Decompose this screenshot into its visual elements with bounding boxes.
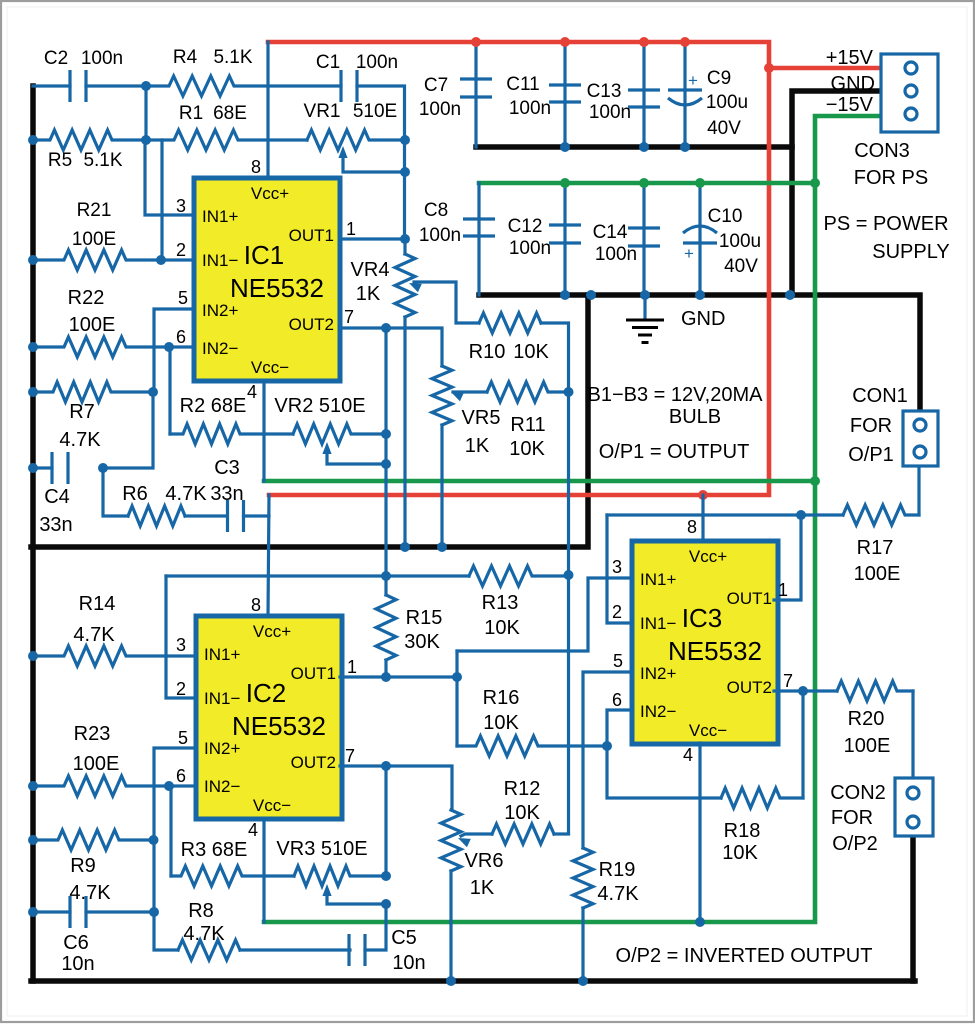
- pin 4 IC1: [247, 382, 257, 402]
- node R9 left: [28, 835, 38, 845]
- label R5: [48, 150, 72, 171]
- junction ground bus A x=644: [639, 142, 649, 152]
- wire -15V top rail: [479, 181, 815, 186]
- svg-text:R4: R4: [173, 47, 198, 68]
- svg-text:R22: R22: [68, 287, 105, 309]
- svg-text:NE5532: NE5532: [230, 273, 324, 303]
- node R14 left: [28, 651, 38, 661]
- junction -15V rail x=644: [639, 178, 649, 188]
- note B1-B3: [588, 384, 764, 406]
- wire IC3 out2: [774, 689, 837, 692]
- label C12 value: [509, 238, 551, 259]
- resistor R10: [479, 313, 541, 333]
- svg-text:100n: 100n: [509, 238, 551, 259]
- svg-text:100u: 100u: [706, 92, 748, 113]
- svg-text:O/P1 = OUTPUT: O/P1 = OUTPUT: [599, 441, 750, 463]
- label C14: [593, 222, 628, 243]
- label C3: [214, 457, 240, 479]
- note O/P2: [616, 945, 873, 967]
- label C13 value: [589, 102, 631, 123]
- wire IC1 out1: [341, 237, 405, 240]
- node R9 right: [149, 835, 159, 845]
- svg-text:R20: R20: [848, 708, 885, 730]
- label CON2 O/P2: [832, 833, 878, 855]
- wire CON2 to ground bus: [910, 836, 916, 981]
- wire R7 node to C4: [103, 392, 153, 468]
- label R17 value: [854, 563, 901, 585]
- svg-text:Vcc+: Vcc+: [251, 184, 289, 203]
- svg-text:8: 8: [251, 595, 261, 615]
- wire R10 to R13 column: [541, 323, 569, 833]
- resistor R6: [128, 506, 185, 526]
- label R19 value: [597, 883, 639, 905]
- svg-text:O/P2: O/P2: [832, 833, 878, 855]
- node OUT1 IC1: [400, 234, 410, 244]
- svg-text:10K: 10K: [504, 802, 540, 824]
- svg-text:C3: C3: [214, 457, 240, 479]
- label CON2 FOR: [831, 807, 873, 829]
- svg-text:OUT1: OUT1: [727, 589, 772, 608]
- svg-text:OUT2: OUT2: [291, 753, 336, 772]
- svg-text:IN1+: IN1+: [204, 645, 240, 664]
- node pin2: [156, 255, 166, 265]
- svg-text:CON2: CON2: [830, 782, 886, 804]
- label R20: [848, 708, 885, 730]
- svg-text:Vcc+: Vcc+: [253, 622, 291, 641]
- label +15V: [826, 47, 874, 69]
- svg-text:3: 3: [176, 635, 186, 655]
- label VR3 510E: [276, 838, 367, 860]
- wire IC1 out2: [341, 328, 442, 366]
- svg-text:VR1: VR1: [304, 101, 341, 122]
- node R5/R1: [141, 135, 151, 145]
- label R1 value: [213, 103, 247, 124]
- pin 6 IC2: [176, 766, 186, 786]
- label R23 value: [73, 753, 120, 775]
- label VR4: [351, 259, 390, 281]
- svg-text:5: 5: [178, 728, 188, 748]
- wire IC2 out2: [340, 766, 452, 810]
- wire IC2 out1: [340, 675, 457, 678]
- note BULB: [669, 406, 721, 428]
- svg-text:33n: 33n: [39, 514, 72, 536]
- resistor R19: [573, 848, 593, 908]
- potentiometer VR2 track: [293, 424, 386, 444]
- svg-text:NE5532: NE5532: [232, 711, 326, 741]
- svg-text:O/P2 = INVERTED OUTPUT: O/P2 = INVERTED OUTPUT: [616, 945, 873, 967]
- svg-text:−15V: −15V: [826, 94, 874, 116]
- svg-text:R16: R16: [483, 687, 520, 709]
- svg-text:BULB: BULB: [669, 406, 721, 428]
- junction ground bus B x=790: [785, 290, 795, 300]
- svg-text:C6: C6: [63, 932, 89, 954]
- svg-text:1: 1: [778, 580, 788, 600]
- label C13: [587, 81, 622, 102]
- potentiometer VR2 wiper: [322, 442, 386, 464]
- label R2 68E: [180, 395, 247, 417]
- svg-text:R14: R14: [79, 593, 116, 615]
- label R21 value: [72, 229, 116, 250]
- wire C2 to R4 node: [86, 84, 146, 87]
- label C11 value: [509, 98, 551, 119]
- capacitor C11: [549, 85, 581, 102]
- svg-text:C14: C14: [593, 222, 628, 243]
- label R8: [188, 900, 214, 922]
- wire IC3 pin4 to -15V: [698, 743, 701, 922]
- svg-text:R11: R11: [510, 414, 545, 436]
- pin 7 IC1: [344, 307, 354, 327]
- wire R17 to CON1: [917, 466, 920, 515]
- capacitor C9: [668, 71, 702, 105]
- pin 3 IC1: [176, 196, 186, 216]
- label R21: [77, 200, 112, 221]
- capacitor C4: [52, 452, 68, 484]
- resistor R14: [33, 646, 196, 666]
- capacitor C7: [460, 79, 492, 97]
- label R3 68E: [181, 839, 248, 861]
- connector CON2: [895, 778, 933, 836]
- pin 8 IC1: [251, 157, 261, 177]
- label R9 value: [69, 882, 111, 904]
- label R4 value: [213, 47, 252, 68]
- pin 2 IC2: [176, 679, 186, 699]
- svg-text:8: 8: [687, 517, 697, 537]
- svg-text:1: 1: [346, 219, 356, 239]
- label C14 value: [595, 244, 637, 265]
- capacitor C13: [628, 90, 660, 107]
- label CON1 FOR: [850, 415, 892, 437]
- svg-text:2: 2: [612, 602, 622, 622]
- junction ground bus B x=591: [586, 290, 596, 300]
- wire C4 to R6: [103, 468, 128, 516]
- junction -15V mid rail: [810, 476, 820, 486]
- junction -15V rail x=565: [560, 178, 570, 188]
- svg-text:+15V: +15V: [826, 47, 874, 69]
- svg-text:VR3 510E: VR3 510E: [276, 838, 367, 860]
- junction +15V IC3 pin8: [698, 490, 708, 500]
- svg-text:GND: GND: [681, 308, 725, 330]
- svg-text:IN2−: IN2−: [204, 777, 240, 796]
- node IN1- IC3: [602, 741, 612, 751]
- node OUT2 IC1: [381, 323, 391, 333]
- svg-text:5: 5: [613, 651, 623, 671]
- svg-text:GND: GND: [831, 73, 875, 95]
- svg-text:40V: 40V: [707, 118, 741, 139]
- wire CON3 GND branch: [792, 91, 881, 295]
- svg-text:B1−B3 = 12V,20MA: B1−B3 = 12V,20MA: [588, 384, 764, 406]
- label C2 value: [81, 48, 123, 69]
- pin 2 IC3: [612, 602, 622, 622]
- node C6 left: [28, 907, 38, 917]
- svg-text:5.1K: 5.1K: [213, 47, 252, 68]
- pin 7 IC2: [345, 746, 355, 766]
- svg-text:4.7K: 4.7K: [183, 923, 225, 945]
- resistor R16: [457, 736, 607, 756]
- wire C6 to R8 corner: [86, 910, 154, 913]
- capacitor C10: [683, 226, 717, 263]
- wire +15V to CON3: [769, 66, 881, 71]
- svg-text:C2: C2: [44, 48, 68, 69]
- pin 4 IC2: [248, 820, 258, 840]
- svg-text:100n: 100n: [419, 99, 461, 120]
- junction ground bus A x=565: [560, 142, 570, 152]
- resistor R15: [376, 595, 396, 660]
- node OUT2 IC2: [381, 761, 391, 771]
- svg-text:IN1−: IN1−: [202, 251, 238, 270]
- svg-text:R2 68E: R2 68E: [180, 395, 247, 417]
- junction +15V rail x=565: [560, 37, 570, 47]
- wire IC3 pin8 to +15V: [701, 495, 704, 541]
- wire R8 to C5: [240, 948, 350, 951]
- junction ground bus B x=700: [695, 290, 705, 300]
- svg-text:7: 7: [344, 307, 354, 327]
- svg-text:C7: C7: [424, 75, 448, 96]
- svg-text:C4: C4: [44, 486, 70, 508]
- svg-text:4: 4: [247, 382, 257, 402]
- svg-text:FOR PS: FOR PS: [854, 167, 928, 189]
- wire R4 to C1: [268, 84, 341, 87]
- svg-text:7: 7: [345, 746, 355, 766]
- wire R13 line: [166, 574, 469, 577]
- svg-text:C10: C10: [708, 206, 743, 227]
- svg-text:Vcc−: Vcc−: [689, 721, 727, 740]
- potentiometer VR3 track: [294, 866, 386, 886]
- svg-text:CON3: CON3: [854, 140, 910, 162]
- wire pin5 to R7: [154, 309, 194, 392]
- wire C3 to +15V column: [244, 514, 270, 517]
- wire IC3 pin6: [607, 710, 632, 746]
- label R16 value: [483, 712, 519, 734]
- label R23: [74, 723, 111, 745]
- node VR3 right: [381, 871, 391, 881]
- wire -15V mid rail: [264, 479, 815, 484]
- svg-text:C13: C13: [587, 81, 622, 102]
- svg-text:1K: 1K: [470, 877, 495, 899]
- label R5 value: [83, 150, 122, 171]
- node R15 top: [381, 571, 391, 581]
- capacitor C1: [341, 70, 357, 102]
- wire R20 to CON2: [911, 691, 914, 778]
- wire pin5 IC2 to R9: [154, 748, 196, 840]
- label R14: [79, 593, 116, 615]
- wire VR4 column bottom: [403, 317, 406, 547]
- svg-text:R1: R1: [179, 103, 203, 124]
- junction -15V rail x=815: [810, 178, 820, 188]
- pin 1 IC2: [347, 657, 357, 677]
- label R16: [483, 687, 520, 709]
- svg-text:2: 2: [176, 679, 186, 699]
- label R9: [70, 855, 96, 877]
- wire R17 line: [607, 513, 843, 516]
- potentiometer VR5 track: [432, 366, 452, 425]
- svg-text:1: 1: [347, 657, 357, 677]
- label FOR PS: [854, 167, 928, 189]
- svg-text:VR6: VR6: [465, 850, 504, 872]
- label C4: [44, 486, 70, 508]
- node R16 top: [452, 672, 462, 682]
- wire ground bus B: [479, 295, 920, 411]
- wire IC3 pin1: [774, 515, 801, 600]
- pin 2 IC1: [176, 240, 186, 260]
- capacitor C3: [228, 500, 244, 532]
- wire IC2 pin8 to +15V: [268, 495, 269, 616]
- label C1 value: [356, 52, 398, 73]
- wire R19 to ground: [581, 908, 584, 981]
- node R22 left: [28, 342, 38, 352]
- wire left ground bus vertical: [30, 86, 36, 981]
- svg-text:100n: 100n: [595, 244, 637, 265]
- wire pin6 IC2 to R3: [169, 786, 171, 876]
- label VR1: [304, 101, 341, 122]
- label R22: [68, 287, 105, 309]
- potentiometer VR1 wiper: [338, 146, 405, 172]
- label C7 value: [419, 99, 461, 120]
- label R18 value: [722, 842, 758, 864]
- label -15V: [826, 94, 874, 116]
- label R13: [482, 592, 519, 614]
- wire mid ground bus: [31, 295, 588, 547]
- svg-text:40V: 40V: [724, 256, 758, 277]
- node R5 left: [28, 135, 38, 145]
- svg-text:1K: 1K: [465, 435, 490, 457]
- resistor R4: [146, 76, 268, 96]
- svg-text:3: 3: [176, 196, 186, 216]
- wire IC1 pin4 to -15V: [262, 381, 265, 481]
- svg-text:4.7K: 4.7K: [165, 483, 207, 505]
- svg-text:6: 6: [176, 327, 186, 347]
- label C3 value: [210, 483, 243, 505]
- node C6 right: [149, 907, 159, 917]
- pin 5 IC3: [613, 651, 623, 671]
- wire R18 to OUT2: [801, 691, 804, 798]
- label R1: [179, 103, 203, 124]
- label R7: [69, 401, 95, 423]
- svg-text:FOR: FOR: [850, 415, 892, 437]
- label C11: [506, 74, 539, 95]
- label GND node: [681, 308, 725, 330]
- svg-text:C12: C12: [508, 216, 543, 237]
- pin 1 IC1: [346, 219, 356, 239]
- svg-text:IN2+: IN2+: [202, 301, 238, 320]
- svg-text:R23: R23: [74, 723, 111, 745]
- label C2: [44, 48, 68, 69]
- label R22 value: [69, 314, 116, 336]
- potentiometer VR5 wiper: [451, 392, 487, 401]
- svg-text:10K: 10K: [484, 617, 520, 639]
- label R6: [122, 483, 148, 505]
- wire IC3 pin5 to R19: [583, 672, 632, 848]
- wire R9 node to C6: [152, 840, 155, 912]
- resistor R5: [33, 130, 146, 150]
- wire C5 to OUT2 column: [365, 904, 386, 950]
- potentiometer VR6 wiper: [458, 834, 492, 847]
- resistor R2: [170, 424, 293, 444]
- label R19: [599, 859, 636, 881]
- svg-text:FOR: FOR: [831, 807, 873, 829]
- wire IC2 pin4 to -15V: [262, 819, 265, 922]
- resistor R13: [469, 566, 569, 586]
- node OUT1 IC2: [381, 672, 391, 682]
- wire R18 line: [607, 746, 721, 798]
- wire C1 to VR1 node: [357, 86, 405, 239]
- pin 3 IC2: [176, 635, 186, 655]
- label C6 value: [61, 953, 94, 975]
- wire R16 left column: [455, 651, 458, 746]
- label C10 value: [719, 231, 761, 252]
- svg-text:C5: C5: [391, 927, 417, 949]
- wire R13 col to pin2 IC2: [166, 576, 196, 698]
- svg-text:R18: R18: [724, 820, 761, 842]
- junction -15V rail x=700: [695, 178, 705, 188]
- svg-text:100n: 100n: [419, 225, 461, 246]
- svg-text:3: 3: [612, 557, 622, 577]
- pin 3 IC3: [612, 557, 622, 577]
- svg-text:10K: 10K: [509, 438, 545, 460]
- label C10: [708, 206, 743, 227]
- svg-text:+: +: [684, 244, 694, 263]
- pin 4 IC3: [683, 745, 693, 765]
- svg-text:5: 5: [178, 288, 188, 308]
- wire bottom ground bus: [31, 978, 915, 984]
- svg-text:Vcc−: Vcc−: [253, 796, 291, 815]
- junction ground bus B x=565: [560, 290, 570, 300]
- potentiometer VR6 track: [441, 810, 461, 871]
- wire -15V from CON3: [264, 116, 881, 922]
- node VR6 ground: [446, 976, 456, 986]
- wire IC3 pin2 to R17 line: [607, 515, 632, 623]
- label C8 value: [419, 225, 461, 246]
- svg-text:C8: C8: [424, 200, 448, 221]
- wire C9 column: [683, 42, 686, 147]
- svg-text:R6: R6: [122, 483, 148, 505]
- label C1: [316, 52, 340, 73]
- label VR2 510E: [274, 395, 365, 417]
- capacitor C8: [463, 219, 495, 236]
- svg-text:1K: 1K: [356, 283, 381, 305]
- pin 6 IC1: [176, 327, 186, 347]
- wire IC1 pin8 to +15V: [266, 42, 269, 178]
- label C12: [508, 216, 543, 237]
- node pin6 IC2: [164, 781, 174, 791]
- label VR6 value: [470, 877, 495, 899]
- svg-text:4.7K: 4.7K: [73, 624, 115, 646]
- label R15 value: [404, 631, 440, 653]
- wire C11 column: [563, 42, 566, 147]
- node C4 left: [28, 463, 38, 473]
- pin 1 IC3: [778, 580, 788, 600]
- svg-text:C9: C9: [707, 68, 731, 89]
- node VR5 ground: [437, 542, 447, 552]
- svg-text:10K: 10K: [483, 712, 519, 734]
- svg-text:Vcc−: Vcc−: [251, 358, 289, 377]
- svg-text:PS = POWER: PS = POWER: [823, 213, 948, 235]
- label R10: [469, 341, 506, 363]
- label C5: [391, 927, 417, 949]
- node OUT1 IC3: [796, 510, 806, 520]
- resistor R21: [33, 250, 194, 270]
- node VR3 wiper: [381, 899, 391, 909]
- wire +15V rail: [268, 42, 769, 495]
- capacitor C2: [70, 70, 86, 102]
- svg-text:100E: 100E: [854, 563, 901, 585]
- svg-text:C11: C11: [506, 74, 539, 95]
- svg-text:R7: R7: [69, 401, 95, 423]
- svg-text:CON1: CON1: [852, 385, 908, 407]
- svg-text:+: +: [688, 71, 698, 90]
- svg-text:2: 2: [176, 240, 186, 260]
- svg-text:OUT1: OUT1: [289, 226, 334, 245]
- node R11 right: [564, 387, 574, 397]
